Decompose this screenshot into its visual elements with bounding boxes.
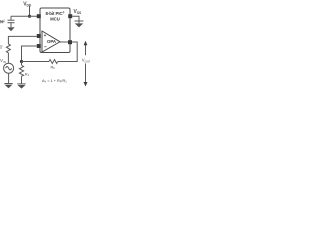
resistor Rf (49, 60, 58, 64)
source Vin (4, 63, 14, 73)
wire Vdd vertical (29, 6, 31, 16)
resistor R1 (19, 65, 23, 76)
label 8-bit PIC MCU (46, 11, 65, 22)
wire inverting input (22, 46, 37, 62)
ground (capacitor) (7, 27, 14, 31)
ground (Vss) (75, 21, 84, 27)
wire feedback left (22, 61, 50, 63)
node feedback junction (20, 60, 23, 63)
svg-text:–: – (44, 44, 47, 50)
pin inverting input (37, 44, 41, 48)
svg-text:+: + (44, 33, 47, 38)
ground (Vin) (4, 84, 12, 89)
wire noninverting input (8, 36, 36, 44)
pin output (68, 40, 72, 44)
op-amp OPA (42, 31, 60, 52)
svg-text:R1: R1 (25, 71, 30, 77)
svg-text:OPA: OPA (47, 39, 56, 44)
capacitor C1 (8, 16, 15, 27)
arrow Vout top (85, 45, 87, 56)
clipped capacitor value label (0, 20, 5, 23)
pin Vdd (37, 14, 41, 18)
arrow Vout bottom (85, 64, 87, 83)
wire op-amp output to pin (60, 41, 68, 43)
svg-text:MCU: MCU (50, 16, 60, 21)
wire Vdd horizontal (11, 15, 37, 17)
wire R1 bottom (21, 76, 23, 84)
svg-text:VSS: VSS (74, 9, 83, 15)
svg-text:VIN: VIN (0, 58, 6, 64)
MCU U1 box (40, 8, 70, 53)
resistor Rs (6, 44, 10, 53)
ground (R1) (17, 84, 25, 89)
svg-text:VDD: VDD (23, 1, 32, 7)
pin Vss (68, 14, 72, 18)
svg-text:8-bit PIC®: 8-bit PIC® (46, 11, 65, 16)
svg-text:AV = 1 + RF/R1: AV = 1 + RF/R1 (42, 79, 67, 84)
pin noninverting input (37, 34, 41, 38)
wire feedback right (58, 42, 77, 62)
svg-text:RF: RF (51, 65, 56, 71)
wire source top (7, 53, 9, 64)
wire Vss (72, 16, 79, 21)
clipped resistor label (0, 46, 3, 48)
svg-text:VOUT: VOUT (82, 58, 90, 64)
wire R1 top (21, 62, 23, 66)
wire source bottom (8, 73, 10, 83)
node Vdd junction (28, 15, 31, 18)
power Vdd label (23, 1, 32, 7)
